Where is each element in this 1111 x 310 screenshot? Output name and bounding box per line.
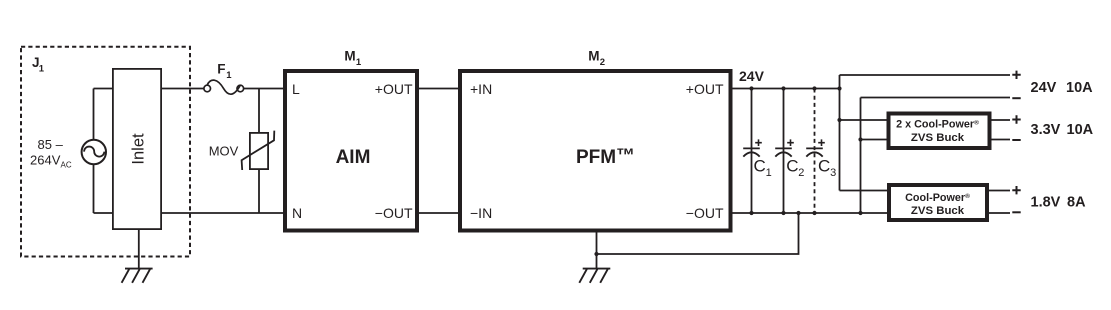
svg-text:85 –: 85 – <box>38 137 64 152</box>
svg-text:F: F <box>217 62 225 77</box>
svg-text:1: 1 <box>766 167 772 179</box>
svg-text:1: 1 <box>226 70 232 81</box>
svg-text:−OUT: −OUT <box>375 205 413 221</box>
svg-text:L: L <box>292 81 300 97</box>
svg-text:ZVS Buck: ZVS Buck <box>911 205 965 217</box>
svg-text:+OUT: +OUT <box>686 81 724 97</box>
svg-text:10A: 10A <box>1066 80 1093 96</box>
svg-text:1: 1 <box>356 57 362 68</box>
svg-text:1: 1 <box>39 64 45 75</box>
svg-text:PFM™: PFM™ <box>576 146 635 169</box>
svg-text:Cool-Power®: Cool-Power® <box>905 192 970 204</box>
svg-text:−IN: −IN <box>470 205 492 221</box>
svg-text:24V: 24V <box>1031 80 1057 96</box>
svg-text:Inlet: Inlet <box>129 133 147 165</box>
svg-text:264V: 264V <box>30 153 61 168</box>
svg-text:+OUT: +OUT <box>375 81 413 97</box>
svg-text:3.3V: 3.3V <box>1031 122 1061 138</box>
svg-text:10A: 10A <box>1067 122 1094 138</box>
svg-text:M: M <box>588 48 599 63</box>
svg-text:AC: AC <box>61 161 72 170</box>
svg-text:N: N <box>292 205 302 221</box>
svg-text:M: M <box>344 48 355 63</box>
svg-text:8A: 8A <box>1067 195 1086 211</box>
svg-text:3: 3 <box>830 167 836 179</box>
svg-text:+IN: +IN <box>470 81 492 97</box>
svg-text:ZVS Buck: ZVS Buck <box>911 132 965 144</box>
svg-text:1.8V: 1.8V <box>1031 195 1061 211</box>
svg-text:2 x Cool-Power®: 2 x Cool-Power® <box>896 118 979 130</box>
svg-text:C: C <box>786 157 798 176</box>
svg-text:MOV: MOV <box>209 144 239 159</box>
svg-text:C: C <box>818 157 830 176</box>
svg-text:−OUT: −OUT <box>686 205 724 221</box>
svg-text:C: C <box>754 157 766 176</box>
svg-text:2: 2 <box>798 167 804 179</box>
svg-text:24V: 24V <box>739 68 765 84</box>
svg-text:2: 2 <box>600 57 605 68</box>
svg-text:AIM: AIM <box>336 147 371 168</box>
